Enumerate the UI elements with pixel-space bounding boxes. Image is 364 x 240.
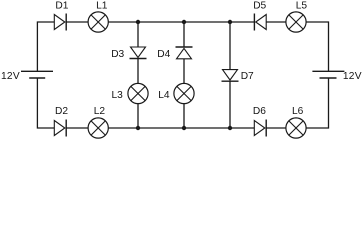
node bottom rail / L4 branch	[182, 126, 186, 130]
wire L5 right, corner down to right battery plus	[306, 22, 328, 71]
wire bottom rail D6 anode to D2 cathode	[66, 127, 254, 129]
node top rail / D4 branch	[182, 20, 186, 24]
battery right 12V	[312, 71, 344, 78]
lamp L2	[88, 118, 108, 138]
diode D4	[176, 47, 193, 59]
svg-text:L3: L3	[112, 90, 124, 101]
svg-text:L2: L2	[94, 106, 106, 117]
battery left 12V	[21, 71, 53, 78]
svg-text:L5: L5	[296, 1, 308, 12]
wire top rail L1 to D5 cathode	[108, 21, 254, 23]
svg-text:L6: L6	[292, 106, 304, 117]
node bottom rail / D7 branch	[228, 126, 232, 130]
svg-text:D1: D1	[55, 1, 68, 12]
wire top rail node to D4 cathode	[183, 22, 185, 47]
wire D2 anode left, corner up to left battery minus	[37, 78, 54, 128]
svg-text:12V: 12V	[1, 71, 20, 82]
diode D6	[254, 120, 266, 137]
wire D5 anode to L5	[266, 21, 286, 23]
wire left-top: battery plus up and right to D1 anode	[37, 22, 54, 71]
wire D3 cathode to L3	[137, 59, 139, 84]
node bottom rail / L3 branch	[136, 126, 140, 130]
wire top rail node to D3	[137, 22, 139, 47]
svg-text:D4: D4	[157, 49, 170, 60]
node top rail / D3 branch	[136, 20, 140, 24]
svg-text:D3: D3	[111, 49, 124, 60]
svg-text:D6: D6	[253, 106, 266, 117]
lamp L4	[174, 83, 194, 103]
wire D7 cathode to bottom rail node	[229, 81, 231, 128]
lamp L6	[286, 118, 306, 138]
svg-text:L4: L4	[158, 90, 170, 101]
wire right battery minus down, corner left to L6	[306, 78, 328, 128]
svg-text:D5: D5	[253, 1, 266, 12]
wire L3 to bottom rail node	[137, 104, 139, 128]
wire D1 cathode to L1	[66, 21, 88, 23]
lamp L5	[286, 12, 306, 32]
svg-text:12V: 12V	[343, 71, 362, 82]
diode D1	[54, 14, 66, 31]
svg-text:D2: D2	[55, 106, 68, 117]
diode D2	[54, 120, 66, 137]
diode D7	[222, 70, 239, 82]
wire top rail node to D7	[229, 22, 231, 70]
wire L4 to bottom rail node	[183, 104, 185, 128]
diode D5	[254, 14, 266, 31]
lamp L3	[128, 83, 148, 103]
lamp L1	[88, 12, 108, 32]
diode D3	[130, 47, 147, 59]
node top rail / D7 branch	[228, 20, 232, 24]
svg-text:D7: D7	[241, 71, 254, 82]
wire L6 to D6 cathode	[266, 127, 286, 129]
wire D4 anode to L4	[183, 59, 185, 84]
svg-text:L1: L1	[96, 1, 108, 12]
